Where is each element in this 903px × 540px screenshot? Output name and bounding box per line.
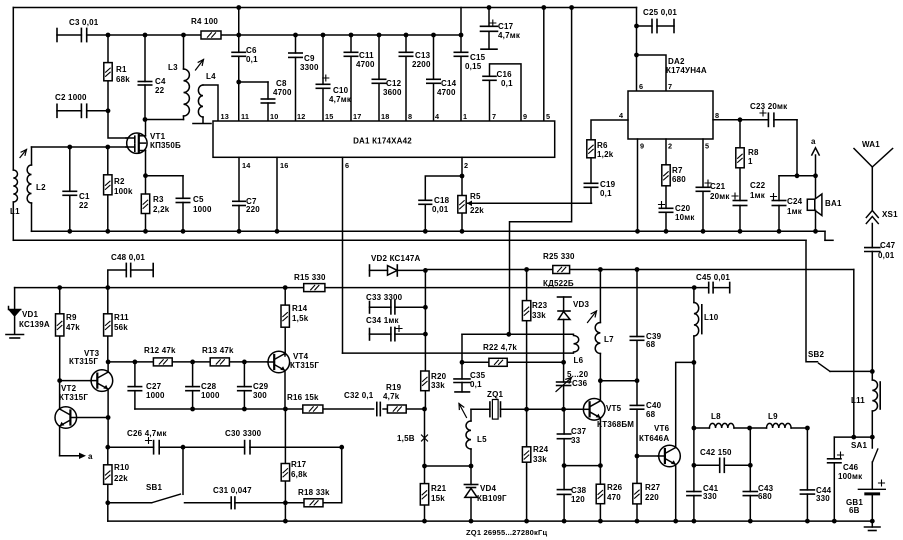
capacitor C35 xyxy=(454,362,486,392)
node C13 top xyxy=(404,33,409,38)
node R4 right xyxy=(236,33,241,38)
wire VT6 emitter xyxy=(673,465,678,524)
capacitor C14 pin4 xyxy=(427,35,457,121)
capacitor C31 xyxy=(185,486,286,509)
svg-text:КТ315Г: КТ315Г xyxy=(69,357,98,366)
svg-text:15k: 15k xyxy=(431,494,445,503)
svg-text:3300: 3300 xyxy=(300,63,319,72)
svg-text:SB1: SB1 xyxy=(146,483,163,492)
capacitor C27 xyxy=(128,362,165,409)
svg-text:КП350Б: КП350Б xyxy=(150,141,181,150)
svg-text:C13: C13 xyxy=(415,51,431,60)
svg-text:C14: C14 xyxy=(441,79,457,88)
svg-text:9: 9 xyxy=(523,112,527,121)
node C14 top xyxy=(431,33,436,38)
svg-text:КВ109Г: КВ109Г xyxy=(477,494,507,503)
svg-text:КТ315Г: КТ315Г xyxy=(290,361,319,370)
svg-text:R8: R8 xyxy=(748,148,759,157)
wire gate1 VT1 xyxy=(108,111,130,138)
svg-text:C11: C11 xyxy=(359,51,374,60)
node C37 bottom xyxy=(562,463,567,468)
svg-text:10: 10 xyxy=(270,112,279,121)
node VD2 out xyxy=(423,268,428,273)
node R1-C2-gate xyxy=(106,108,111,113)
resistor R20 xyxy=(421,371,447,391)
wire pin9 DA2 xyxy=(635,139,640,234)
svg-text:C40: C40 xyxy=(646,401,662,410)
node C36 bottom xyxy=(561,407,566,412)
svg-text:220: 220 xyxy=(645,493,659,502)
node C12 top xyxy=(377,33,382,38)
wire R21 column xyxy=(422,409,427,523)
node C28 bottom xyxy=(190,407,195,412)
svg-text:22: 22 xyxy=(155,86,165,95)
speaker BA1 xyxy=(807,176,842,234)
node VT3 coll xyxy=(106,360,111,365)
svg-text:1,5В: 1,5В xyxy=(397,434,415,443)
wire VT3-VT4 rail xyxy=(108,361,267,363)
node C42 right xyxy=(748,463,753,468)
terminal a VT2 emitter xyxy=(60,426,93,461)
node C27 top xyxy=(133,360,138,365)
svg-text:VD2 КС147А: VD2 КС147А xyxy=(371,254,420,263)
inductor L5 xyxy=(466,409,487,468)
svg-text:R26: R26 xyxy=(607,483,623,492)
node L8 left xyxy=(692,426,697,431)
transistor VT2 xyxy=(55,384,88,428)
node R11 top xyxy=(105,285,110,290)
svg-text:C24: C24 xyxy=(787,197,803,206)
node C4 top xyxy=(143,33,148,38)
svg-text:C1: C1 xyxy=(79,192,90,201)
svg-text:1,2k: 1,2k xyxy=(597,150,614,159)
svg-text:SB2: SB2 xyxy=(808,350,825,359)
svg-text:100k: 100k xyxy=(114,187,133,196)
svg-text:15: 15 xyxy=(325,112,334,121)
svg-text:0,1: 0,1 xyxy=(501,79,513,88)
svg-text:22k: 22k xyxy=(470,206,484,215)
svg-text:R15 330: R15 330 xyxy=(294,273,326,282)
wire C26-C30 run xyxy=(108,446,342,448)
wire VD2 column xyxy=(424,270,426,410)
svg-text:C5: C5 xyxy=(193,195,204,204)
svg-text:R11: R11 xyxy=(114,313,129,322)
svg-text:C6: C6 xyxy=(246,46,257,55)
svg-text:C4: C4 xyxy=(155,77,166,86)
wire pin6 DA1 to bottom xyxy=(342,157,344,353)
resistor R23 xyxy=(522,267,547,409)
inductor L8 xyxy=(694,412,750,428)
node VT3 base xyxy=(57,378,62,383)
capacitor C47 xyxy=(865,241,896,371)
L5 adjust arrow xyxy=(459,404,467,418)
node L11 bottom xyxy=(870,435,875,440)
svg-text:0,1: 0,1 xyxy=(246,55,258,64)
svg-text:XS1: XS1 xyxy=(882,210,898,219)
svg-text:8: 8 xyxy=(715,111,719,120)
capacitor C18 xyxy=(419,176,462,231)
antenna WA1 xyxy=(854,140,893,210)
node pin1 rail xyxy=(459,33,464,38)
wire supply mid xyxy=(462,333,574,335)
node C45 tap xyxy=(692,285,697,290)
inductor L6 xyxy=(574,336,584,366)
svg-text:C33 3300: C33 3300 xyxy=(366,293,403,302)
svg-text:L2: L2 xyxy=(36,183,46,192)
svg-text:1,5k: 1,5k xyxy=(292,314,309,323)
svg-text:L3: L3 xyxy=(168,63,178,72)
svg-text:2,2k: 2,2k xyxy=(153,205,170,214)
capacitor C33 xyxy=(366,293,425,314)
svg-text:0,15: 0,15 xyxy=(465,62,482,71)
svg-text:6: 6 xyxy=(345,161,349,170)
svg-text:R7: R7 xyxy=(672,166,683,175)
svg-text:R23: R23 xyxy=(532,301,548,310)
svg-text:C28: C28 xyxy=(201,382,217,391)
resistor R9 xyxy=(56,288,81,381)
node R16 left xyxy=(283,407,288,412)
resistor R11 xyxy=(104,288,130,362)
capacitor C22 xyxy=(732,181,766,234)
inductor L4 xyxy=(198,72,218,123)
node VT6 base xyxy=(635,454,640,459)
svg-text:33: 33 xyxy=(571,436,581,445)
svg-text:4,7мк: 4,7мк xyxy=(498,31,521,40)
resistor R26 xyxy=(596,483,622,523)
wire VT5 emitter xyxy=(599,418,601,521)
wire caps bottom rail xyxy=(135,408,286,410)
node PA column xyxy=(692,360,697,365)
svg-text:5: 5 xyxy=(546,112,550,121)
varicap VD4 xyxy=(464,466,507,523)
svg-text:2200: 2200 xyxy=(412,60,431,69)
svg-text:C29: C29 xyxy=(253,382,269,391)
svg-text:22: 22 xyxy=(79,201,89,210)
wire R16-C32-R19 xyxy=(285,408,424,410)
capacitor C39 xyxy=(630,270,661,381)
capacitor C26 xyxy=(127,429,168,454)
node C30 right xyxy=(339,445,344,450)
capacitor C19 xyxy=(584,158,615,204)
svg-text:33k: 33k xyxy=(532,311,546,320)
svg-text:VT6: VT6 xyxy=(654,424,670,433)
capacitor C23 xyxy=(750,102,797,126)
capacitor C16 loop pins 7-9 xyxy=(483,64,521,121)
svg-text:C18: C18 xyxy=(434,196,450,205)
svg-text:VD1: VD1 xyxy=(22,310,39,319)
node R10 SB1 xyxy=(105,500,110,505)
svg-text:C25 0,01: C25 0,01 xyxy=(643,8,677,17)
svg-text:2: 2 xyxy=(668,142,672,151)
node C9 top xyxy=(293,33,298,38)
svg-text:R24: R24 xyxy=(533,445,549,454)
capacitor C40 xyxy=(630,381,661,456)
capacitor C29 xyxy=(238,362,269,409)
wire VT6 base xyxy=(637,455,665,457)
node C11 top xyxy=(349,33,354,38)
svg-text:56k: 56k xyxy=(114,323,128,332)
svg-text:R27: R27 xyxy=(645,483,661,492)
crystal ZQ1 xyxy=(487,390,504,419)
node C1 top xyxy=(67,145,72,150)
svg-text:C10: C10 xyxy=(333,86,349,95)
L7 adjust arrow xyxy=(588,311,597,323)
wire bottom ground rail xyxy=(108,520,873,522)
node C28 top xyxy=(190,360,195,365)
node VT2 base join xyxy=(106,415,111,420)
wire pin11 xyxy=(238,82,240,121)
svg-text:6: 6 xyxy=(639,82,643,91)
resistor R3 xyxy=(141,176,169,232)
terminal a top xyxy=(811,137,819,176)
wire top supply rail xyxy=(13,7,636,9)
capacitor C48 xyxy=(108,253,153,288)
svg-text:C21: C21 xyxy=(710,182,726,191)
resistor R5 xyxy=(458,192,484,215)
svg-text:100мк: 100мк xyxy=(838,472,863,481)
svg-text:0,1: 0,1 xyxy=(600,189,612,198)
wire pin2 DA1 xyxy=(461,157,463,231)
node C39 top xyxy=(635,267,640,272)
svg-text:47k: 47k xyxy=(66,323,80,332)
svg-text:1мк: 1мк xyxy=(787,207,803,216)
node C29 top xyxy=(242,360,247,365)
resistor R22 xyxy=(483,343,517,366)
svg-text:R1: R1 xyxy=(116,65,127,74)
wire coll link xyxy=(600,380,637,382)
svg-text:22k: 22k xyxy=(114,474,128,483)
wire bottom main rail xyxy=(15,287,695,289)
R5 wiper wire xyxy=(467,201,592,207)
node VT5 coll xyxy=(598,378,603,383)
wire pin16 xyxy=(276,157,278,231)
node pin7 branch xyxy=(634,53,639,58)
wire ZQ1 run xyxy=(471,408,584,410)
node R18 tap xyxy=(283,500,288,505)
svg-text:ZQ1 26955...27280кГц: ZQ1 26955...27280кГц xyxy=(466,528,547,537)
wire VT3 collector xyxy=(107,362,109,372)
svg-text:L4: L4 xyxy=(206,72,216,81)
svg-text:1: 1 xyxy=(463,112,467,121)
capacitor C7 pin14 xyxy=(233,157,260,231)
node C29 bottom xyxy=(242,407,247,412)
label crystal freq xyxy=(466,528,547,537)
svg-text:C32 0,1: C32 0,1 xyxy=(344,391,374,400)
resistor R17 xyxy=(281,409,308,523)
node VT5 emitter xyxy=(598,463,603,468)
svg-text:3600: 3600 xyxy=(383,88,402,97)
zener VD1 xyxy=(6,288,50,338)
svg-text:680: 680 xyxy=(672,175,686,184)
svg-text:C17: C17 xyxy=(498,22,514,31)
svg-text:R19: R19 xyxy=(386,383,402,392)
svg-text:VT1: VT1 xyxy=(150,132,166,141)
svg-text:R6: R6 xyxy=(597,141,608,150)
stub VD2 xyxy=(370,265,388,276)
L3 adjust arrow xyxy=(196,60,204,71)
wire VT2 base xyxy=(70,417,108,419)
wire DA2 drop pin6 xyxy=(636,8,638,92)
svg-text:R9: R9 xyxy=(66,313,77,322)
ground symbol battery xyxy=(865,521,881,530)
svg-text:R2: R2 xyxy=(114,177,125,186)
node R19 right xyxy=(422,407,427,412)
wire L5 bottom link xyxy=(425,465,472,467)
resistor R7 pin2 DA2 xyxy=(662,139,686,208)
svg-text:a: a xyxy=(88,452,93,461)
node feed top xyxy=(569,5,574,10)
svg-text:9: 9 xyxy=(640,142,644,151)
node L8-L9 xyxy=(747,426,752,431)
IC DA1 K174XA42 xyxy=(213,121,555,157)
svg-text:VD4: VD4 xyxy=(480,484,497,493)
wire PA column mid xyxy=(693,362,695,428)
capacitor C32 xyxy=(344,391,382,416)
wire C46 link xyxy=(834,436,872,438)
svg-text:DA1 К174ХА42: DA1 К174ХА42 xyxy=(353,137,412,146)
resistor R14 xyxy=(281,285,309,355)
svg-text:R18 33k: R18 33k xyxy=(298,488,330,497)
svg-text:R21: R21 xyxy=(431,484,447,493)
svg-text:11: 11 xyxy=(241,112,249,121)
wire ground rail top section xyxy=(32,229,834,240)
wire VT2 collector xyxy=(59,381,61,409)
svg-text:C46: C46 xyxy=(843,463,859,472)
wire feed to bottom section xyxy=(510,8,572,335)
wire gate2 rail xyxy=(32,146,131,148)
capacitor C41 xyxy=(687,465,719,523)
capacitor C1 xyxy=(63,147,90,231)
wire R22 run xyxy=(462,361,564,363)
node C34 out xyxy=(423,332,428,337)
svg-text:R20: R20 xyxy=(431,372,447,381)
svg-text:5...20: 5...20 xyxy=(567,370,589,379)
svg-text:1000: 1000 xyxy=(201,391,220,400)
svg-text:4700: 4700 xyxy=(437,88,456,97)
wire PA col low xyxy=(693,428,695,465)
svg-text:680: 680 xyxy=(758,492,772,501)
wire frame bottom xyxy=(13,239,806,241)
resistor R6 xyxy=(587,140,614,159)
resistor R27 xyxy=(633,456,661,523)
svg-text:1: 1 xyxy=(748,157,753,166)
svg-text:L6: L6 xyxy=(574,356,584,365)
svg-text:L10: L10 xyxy=(704,313,719,322)
svg-text:VT4: VT4 xyxy=(293,352,309,361)
svg-text:C2 1000: C2 1000 xyxy=(55,93,87,102)
capacitor C30 xyxy=(225,429,262,454)
node C26 left xyxy=(105,445,110,450)
wire R18 xyxy=(285,447,341,503)
svg-text:R14: R14 xyxy=(292,304,308,313)
svg-text:2: 2 xyxy=(464,161,468,170)
test point 1.5V xyxy=(397,434,428,443)
node L3 top xyxy=(181,33,186,38)
resistor R24 xyxy=(522,409,548,523)
wire toprail drop xyxy=(236,5,241,35)
capacitor C21 pin5 DA2 xyxy=(696,139,730,234)
stub C33 xyxy=(370,302,391,314)
transistor VT4 xyxy=(268,351,320,373)
svg-text:L7: L7 xyxy=(604,335,614,344)
capacitor C37 xyxy=(557,409,586,465)
capacitor C24 xyxy=(771,176,803,234)
svg-text:C23 20мк: C23 20мк xyxy=(750,102,788,111)
capacitor C20 xyxy=(659,202,696,234)
svg-text:C38: C38 xyxy=(571,486,587,495)
node C33 out xyxy=(423,305,428,310)
svg-text:R16 15k: R16 15k xyxy=(287,393,319,402)
svg-text:1000: 1000 xyxy=(193,205,212,214)
svg-text:C12: C12 xyxy=(386,79,402,88)
capacitor C45 xyxy=(694,273,730,293)
node L7 top xyxy=(598,267,603,272)
svg-text:220: 220 xyxy=(246,205,260,214)
ground under L4 xyxy=(193,123,211,125)
resistor R15 xyxy=(294,273,326,292)
svg-text:R4 100: R4 100 xyxy=(191,17,218,26)
wire upper rail right xyxy=(425,269,853,271)
svg-text:C19: C19 xyxy=(600,180,616,189)
resistor R18 xyxy=(298,488,330,507)
resistor R12 xyxy=(144,346,176,366)
svg-text:C42 150: C42 150 xyxy=(700,448,732,457)
svg-text:4,7k: 4,7k xyxy=(383,392,400,401)
svg-text:R13 47k: R13 47k xyxy=(202,346,234,355)
svg-text:0,01: 0,01 xyxy=(878,251,895,260)
svg-text:20мк: 20мк xyxy=(710,192,730,201)
IC DA2 K174UN4A xyxy=(628,57,713,139)
svg-text:10мк: 10мк xyxy=(675,213,695,222)
wire VT4 emitter xyxy=(284,371,286,410)
svg-text:КД522Б: КД522Б xyxy=(543,279,574,288)
svg-text:VD3: VD3 xyxy=(573,300,590,309)
diode VD2 xyxy=(371,254,425,276)
svg-text:4: 4 xyxy=(435,112,440,121)
svg-text:R12 47k: R12 47k xyxy=(144,346,176,355)
svg-text:C37: C37 xyxy=(571,427,587,436)
svg-text:6В: 6В xyxy=(849,506,860,515)
capacitor C6 xyxy=(232,35,258,82)
node L6 bottom xyxy=(561,360,566,365)
svg-text:WA1: WA1 xyxy=(862,140,880,149)
wire C35 drop xyxy=(461,334,463,362)
svg-text:6,8k: 6,8k xyxy=(291,470,308,479)
capacitor C46 xyxy=(828,437,863,523)
svg-text:КТ315Г: КТ315Г xyxy=(59,393,88,402)
svg-text:17: 17 xyxy=(353,112,362,121)
svg-text:13: 13 xyxy=(221,112,230,121)
svg-text:C35: C35 xyxy=(470,371,486,380)
capacitor C34 xyxy=(366,316,425,341)
svg-text:5: 5 xyxy=(705,142,709,151)
svg-text:C27: C27 xyxy=(146,382,162,391)
wire left frame / antenna input xyxy=(12,8,14,241)
svg-text:R17: R17 xyxy=(291,460,307,469)
svg-text:C48 0,01: C48 0,01 xyxy=(111,253,145,262)
svg-text:14: 14 xyxy=(242,161,251,170)
capacitor C12 pin18 xyxy=(372,35,402,121)
svg-text:16: 16 xyxy=(280,161,289,170)
svg-text:33k: 33k xyxy=(533,455,547,464)
svg-text:300: 300 xyxy=(253,391,267,400)
wire out node xyxy=(779,173,818,178)
node SB1 top xyxy=(181,445,186,450)
wire pin7 branch xyxy=(637,55,667,91)
svg-text:C45 0,01: C45 0,01 xyxy=(696,273,730,282)
node C6 bottom xyxy=(236,80,241,85)
capacitor C4 xyxy=(138,35,166,120)
